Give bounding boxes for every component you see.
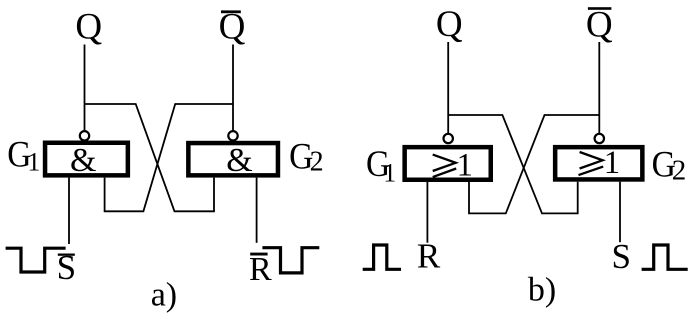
- wire cross-coupling from Q to G2 lower input (a): [85, 104, 215, 211]
- wire cross-coupling from Q-bar to G1 lower input (a): [105, 104, 233, 211]
- value label >=1 of gate G1 (b): [433, 155, 457, 178]
- value label >=1 of gate G2 (b): [579, 152, 604, 175]
- svg-text:b): b): [528, 271, 556, 308]
- wire cross-coupling from Q-bar to G1 lower input (b): [469, 115, 599, 213]
- node Q-bar label (a): [221, 10, 241, 13]
- node S-bar label (a): [58, 254, 75, 256]
- svg-text:S: S: [57, 248, 76, 287]
- gate G2 body (NAND, diagram a): [188, 143, 278, 175]
- waveform: positive pulse at S input (b): [642, 245, 688, 269]
- inverter bubble on G2 output (a): [228, 131, 237, 140]
- svg-text:1: 1: [457, 148, 473, 184]
- gate G1 body (NOR, diagram b): [405, 147, 491, 180]
- svg-text:Q: Q: [586, 5, 613, 46]
- wire Q-bar output of G2 (b): [598, 42, 600, 134]
- svg-text:Q: Q: [436, 4, 463, 45]
- waveform: negative pulse at R-bar input (a): [262, 248, 319, 273]
- svg-text:1: 1: [27, 147, 40, 176]
- svg-text:a): a): [151, 277, 177, 314]
- svg-text:R: R: [249, 251, 272, 288]
- gate G2 body (NOR, diagram b): [555, 147, 642, 179]
- svg-text:1: 1: [604, 145, 620, 181]
- svg-text:2: 2: [672, 155, 687, 187]
- inverter bubble on G2 output (b): [595, 134, 604, 143]
- svg-text:&: &: [70, 142, 96, 179]
- waveform: negative pulse at S-bar input (a): [6, 248, 66, 272]
- svg-text:S: S: [611, 237, 630, 276]
- wire R-bar input to G2 (a): [256, 178, 258, 243]
- svg-text:R: R: [417, 236, 441, 275]
- wire R input to G1 (b): [426, 182, 428, 243]
- inverter bubble on G1 output (a): [80, 131, 89, 140]
- wire Q output of G1 (a): [84, 45, 86, 132]
- node R-bar label (a): [250, 253, 267, 256]
- svg-text:&: &: [226, 142, 252, 179]
- wire S-bar input to G1 (a): [68, 178, 70, 244]
- wire cross-coupling from Q to G2 lower input (b): [448, 115, 578, 213]
- wire Q output of G1 (b): [447, 42, 449, 134]
- svg-text:Q: Q: [75, 7, 102, 48]
- node Q-bar label (b): [588, 7, 612, 10]
- inverter bubble on G1 output (b): [444, 134, 453, 143]
- svg-text:2: 2: [310, 147, 324, 178]
- waveform: positive pulse at R input (b): [363, 245, 401, 269]
- svg-text:1: 1: [383, 158, 396, 187]
- svg-text:Q: Q: [219, 7, 246, 48]
- wire S input to G2 (b): [619, 182, 621, 243]
- wire Q-bar output of G2 (a): [232, 45, 234, 132]
- gate G1 body (NAND, diagram a): [45, 143, 128, 176]
